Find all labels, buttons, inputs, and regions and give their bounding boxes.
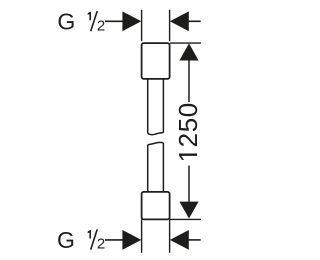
arrow tail left (top G1/2 dim) (105, 20, 124, 22)
hose upper segment left wall (147, 79, 149, 133)
fraction numerator 1 (bottom) (88, 230, 91, 239)
hose lower break line (148, 142, 164, 144)
arrow left (top G1/2 dim) (122, 11, 141, 31)
arrow tail right (top G1/2 dim) (188, 20, 201, 22)
dimension line upper segment (1250 dim) (188, 60, 190, 103)
arrow left (bottom G1/2 dim) (122, 230, 141, 250)
arrow down (1250 dim) (179, 202, 198, 219)
extension line right (top G1/2 dim) (169, 10, 171, 41)
hose upper break line (148, 133, 164, 135)
fraction slash (bottom) (91, 229, 98, 249)
hose upper segment right wall (162, 79, 164, 133)
hose lower segment right wall (162, 143, 164, 192)
extension line left (top G1/2 dim) (141, 10, 143, 41)
extension line right (bottom G1/2 dim) (169, 219, 171, 252)
svg-text:G: G (57, 227, 75, 253)
arrow right (bottom G1/2 dim) (170, 230, 189, 250)
extension line bottom (1250 dim) (170, 218, 201, 220)
text 1250 foot mask lower (195, 156, 199, 162)
arrow up (1250 dim) (179, 43, 198, 60)
dimension line lower segment (1250 dim) (188, 166, 190, 203)
bottom hose fitting (142, 192, 170, 220)
svg-text:2: 2 (97, 17, 105, 34)
fraction numerator 1 (top) (88, 12, 91, 20)
fraction slash (top) (91, 11, 98, 31)
extension line top (1250 dim) (170, 42, 201, 44)
svg-text:1250: 1250 (173, 102, 203, 162)
arrow right (top G1/2 dim) (170, 11, 189, 31)
extension line left (bottom G1/2 dim) (141, 219, 143, 252)
hose lower segment left wall (147, 145, 149, 192)
svg-text:2: 2 (97, 236, 105, 253)
top hose fitting (142, 43, 170, 79)
text 1250 foot mask upper (195, 147, 199, 153)
arrow tail right (bottom G1/2 dim) (188, 239, 201, 241)
arrow tail left (bottom G1/2 dim) (105, 239, 124, 241)
svg-text:G: G (57, 9, 75, 35)
